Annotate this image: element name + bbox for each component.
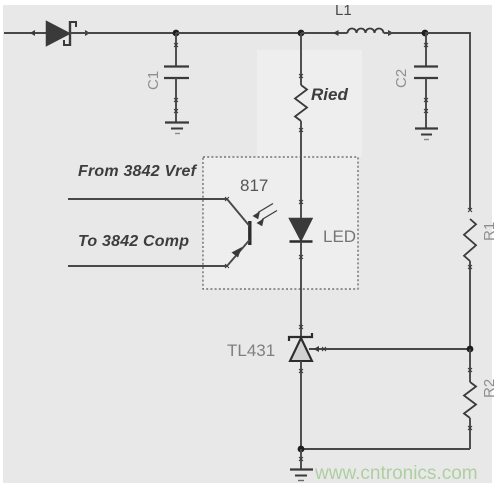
wire: diode cathode to node A [70,32,176,34]
label R2 [481,379,498,398]
junction node A (C1 tap) [173,30,180,37]
TL431 U2 [289,325,470,449]
pin arrow on input wire [30,30,35,36]
ground (below C2) [415,129,438,140]
label To 3842 Comp [78,233,189,250]
opto phototransistor Q1 [225,197,250,268]
label L1 [335,2,352,19]
inductor L1 [333,29,394,37]
label From 3842 Vref [78,163,198,180]
pin arrow on diode cathode lead [85,30,90,36]
label R1 [481,222,498,241]
wire: junction to ground [300,449,302,469]
capacitor C1 [164,33,189,122]
resistor R2 [464,349,476,449]
wire: Ried to LED anode [300,157,302,218]
wire: node A to node B [176,32,301,34]
wire: LED cathode to TL431 cathode [300,289,302,337]
svg-text:R1: R1 [481,222,498,241]
svg-text:817: 817 [240,176,268,195]
svg-text:To 3842 Comp: To 3842 Comp [78,233,189,250]
ground (below C1) [165,123,189,134]
LED D2 [290,200,313,289]
svg-text:www.cntronics.com: www.cntronics.com [314,463,478,484]
svg-text:From 3842 Vref: From 3842 Vref [78,163,198,180]
junction node C (C2 tap) [422,30,429,37]
resistor R1 [464,208,476,349]
wire: input lead to diode D anode [4,32,47,34]
ground (below TL431) [290,457,313,481]
wire: L1 to node C [384,32,426,34]
svg-text:C2: C2 [393,69,410,88]
junction node GND tap [298,446,305,453]
svg-text:C1: C1 [145,71,162,90]
label C2 [393,69,410,88]
watermark www.cntronics.com [314,463,478,484]
svg-text:Ried: Ried [311,85,348,104]
wire: bottom return (anode to R2) [301,448,470,450]
label LED [323,227,356,246]
capacitor C2 [414,33,438,128]
wire: node C to top-right corner [425,33,470,210]
junction node B (Ried tap) [298,30,305,37]
label 817 [240,176,268,195]
wire: node B to L1 [301,32,348,34]
svg-text:L1: L1 [335,2,352,19]
svg-text:LED: LED [323,227,356,246]
resistor Ried [295,33,307,157]
wire: Comp to opto emitter [68,265,227,267]
light arrows into phototransistor [253,204,278,227]
optocoupler U1 dashed outline [203,157,358,289]
svg-text:TL431: TL431 [227,341,275,360]
diode D1 (schottky) [47,21,77,46]
wire: Vref to opto collector [68,198,227,200]
junction node REF (R1/R2/TL431 ref) [467,346,474,353]
label TL431 [227,341,275,360]
label Ried [311,85,348,104]
label C1 [145,71,162,90]
svg-text:R2: R2 [481,379,498,398]
